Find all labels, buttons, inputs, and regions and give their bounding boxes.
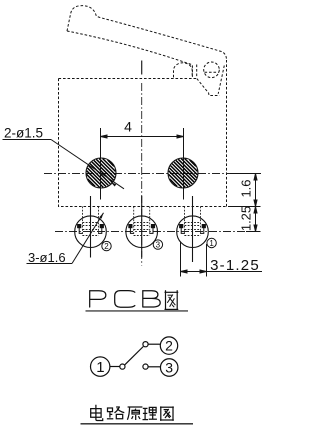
svg-text:1.25: 1.25 — [239, 206, 254, 231]
svg-text:4: 4 — [124, 119, 132, 135]
svg-text:2: 2 — [104, 242, 109, 251]
svg-text:2: 2 — [165, 338, 173, 354]
svg-text:3-ø1.6: 3-ø1.6 — [28, 250, 66, 265]
svg-text:1: 1 — [209, 239, 214, 248]
svg-text:3: 3 — [165, 360, 173, 376]
svg-text:1.6: 1.6 — [239, 179, 254, 197]
svg-text:1: 1 — [96, 359, 104, 376]
svg-text:3-1.25: 3-1.25 — [210, 257, 260, 274]
svg-text:3: 3 — [156, 241, 161, 250]
svg-text:2-ø1.5: 2-ø1.5 — [4, 126, 43, 141]
